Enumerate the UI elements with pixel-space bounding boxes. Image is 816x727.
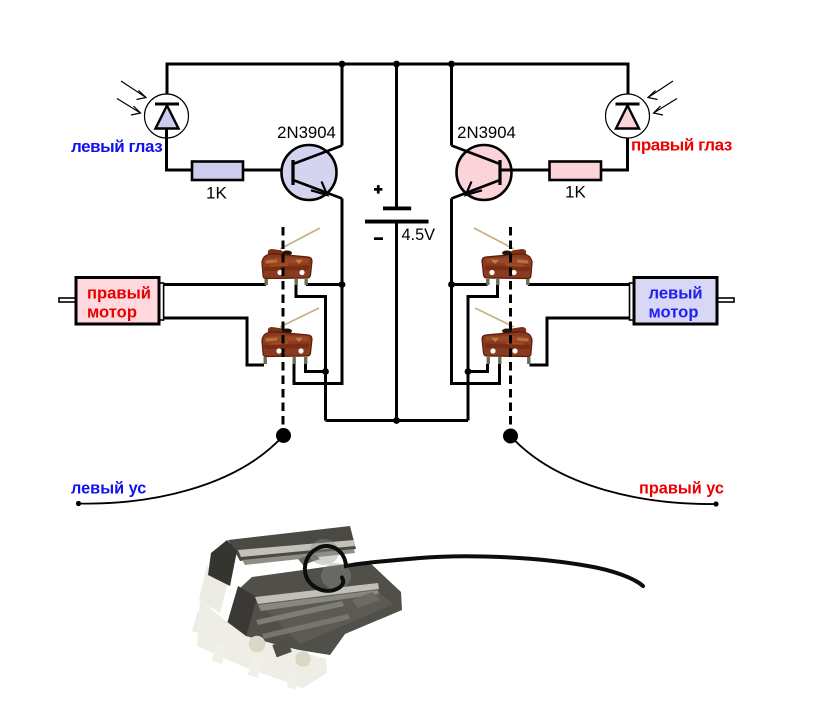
microswitch SW2 — [262, 308, 319, 364]
node: right bus junction — [465, 368, 472, 375]
node: left collector to rail — [339, 61, 346, 68]
wire SW2 NO pin to bus node — [306, 364, 326, 372]
wire Q1 collector to rail — [341, 64, 344, 146]
wire M2 bottom terminal to SW4 — [530, 318, 631, 365]
motor M1 правый мотор — [59, 278, 164, 325]
svg-text:левый: левый — [649, 284, 703, 303]
wire Q2 emitter to SW4 common — [452, 285, 500, 384]
photo front lever — [255, 583, 379, 604]
microswitch SW4 — [475, 308, 532, 364]
node: emitter Q2 / SW3 — [448, 281, 455, 288]
photo back lever shadow — [242, 549, 355, 565]
resistor R1 — [192, 162, 243, 181]
photo base hole 1 — [249, 636, 266, 653]
wire M1 top terminal to SW1 — [164, 283, 267, 286]
photo front marking streak 1 — [256, 601, 344, 625]
svg-text:левый глаз: левый глаз — [71, 137, 162, 156]
wire R2 to D2 — [601, 139, 628, 171]
wire M2 top terminal to SW3 — [528, 283, 630, 286]
photo front switch end cap — [226, 586, 257, 641]
photodiode D1 left eye — [145, 94, 189, 138]
svg-text:2N3904: 2N3904 — [457, 123, 516, 142]
transistor Q1 2N3904 — [282, 145, 343, 200]
svg-text:правый: правый — [87, 284, 151, 303]
photo front switch body — [228, 561, 402, 655]
motor M2 левый мотор — [630, 278, 735, 325]
photo gray blur blobs — [309, 539, 339, 565]
svg-text:мотор: мотор — [87, 303, 137, 322]
svg-text:4.5V: 4.5V — [402, 226, 436, 244]
microswitch SW1 — [262, 228, 320, 285]
battery BT1 — [365, 64, 429, 421]
photo back lever — [238, 540, 355, 557]
photo front diamond logo — [352, 592, 380, 608]
wire Q1 emitter down — [341, 199, 344, 285]
right whisker tip dot — [713, 501, 718, 506]
svg-text:2N3904: 2N3904 — [277, 123, 336, 142]
right whisker pivot dashed line — [509, 227, 512, 428]
photo front marking streak 2 — [262, 614, 350, 639]
node: battery to rail — [393, 61, 400, 68]
photo: stacked microswitches with whisker — [192, 526, 643, 690]
right whisker wire — [511, 436, 717, 504]
wire M1 bottom terminal to SW2 — [164, 318, 265, 365]
wire SW1 NO pin to emitter node — [306, 283, 342, 286]
light arrow 1 into D2 — [648, 81, 673, 100]
left whisker pivot dashed line — [282, 227, 285, 428]
svg-text:правый глаз: правый глаз — [631, 136, 732, 155]
svg-text:мотор: мотор — [649, 303, 699, 322]
transistor Q2 2N3904 right — [452, 145, 512, 200]
light arrow 2 into D1 — [117, 99, 141, 116]
wire D1 anode to resistor R1 — [167, 129, 193, 171]
wire Q1 emitter to SW2 common — [294, 285, 342, 384]
svg-text:1K: 1K — [565, 183, 586, 202]
photo base square hole — [272, 640, 291, 658]
photodiode D2 right eye — [606, 94, 650, 138]
photo pin 4 — [248, 657, 262, 678]
wire Q2 base to R2 — [501, 169, 550, 172]
photo front body shading — [256, 584, 394, 644]
wire SW3 common to lower bus — [468, 285, 498, 421]
top power rail wire — [167, 64, 628, 94]
photo back switch end cap — [208, 540, 237, 586]
wire Q2 collector to rail — [450, 64, 453, 146]
photo whisker wire with loop — [305, 546, 643, 591]
left whisker tip dot — [76, 501, 81, 506]
wire R1 to Q1 base — [243, 169, 292, 172]
node: right collector to rail — [448, 61, 455, 68]
light arrow 2 into D2 — [654, 99, 678, 116]
photo base hole 2 — [295, 651, 310, 666]
left whisker wire — [79, 436, 284, 504]
photo front lever shadow — [258, 590, 379, 611]
photo back pin 1 — [200, 588, 214, 614]
photo back pin 2 — [192, 611, 207, 634]
bottom ground bus wire — [326, 419, 469, 422]
photo back switch body — [228, 526, 356, 561]
wire SW3 NO pin to emitter node — [452, 283, 488, 286]
microswitch SW3 — [474, 228, 532, 285]
photo front white base — [197, 600, 327, 688]
left whisker pivot dot — [276, 428, 291, 443]
right whisker pivot dot — [503, 429, 518, 444]
wire SW4 NO pin to bus node — [468, 364, 488, 372]
node: battery minus to bus — [393, 417, 400, 424]
node: left bus junction — [322, 368, 329, 375]
svg-text:левый ус: левый ус — [71, 480, 146, 498]
photo pin 5 — [287, 671, 298, 690]
photo back diamond logo — [298, 553, 320, 565]
wire SW1 common to lower bus — [296, 285, 326, 421]
resistor R2 — [550, 162, 602, 181]
light arrow 1 into D1 — [121, 81, 146, 100]
wire Q2 emitter down — [450, 199, 453, 285]
photo pin 3 — [212, 642, 226, 664]
svg-text:1K: 1K — [206, 184, 227, 203]
svg-text:правый ус: правый ус — [639, 480, 724, 498]
node: emitter Q1 / SW1 — [339, 281, 346, 288]
photo white base back sliver — [199, 566, 228, 613]
